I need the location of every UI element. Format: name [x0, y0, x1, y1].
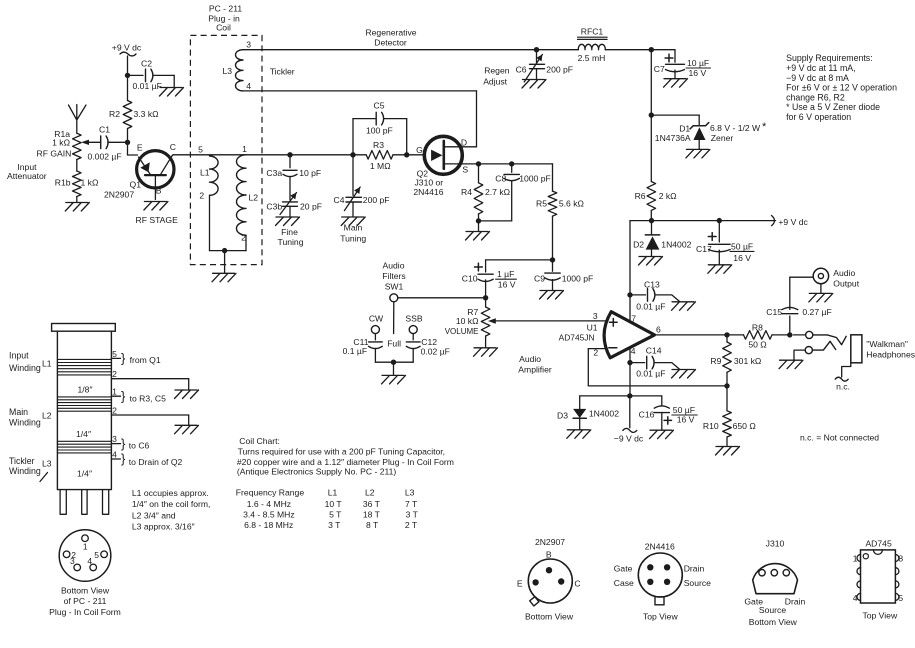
svg-text:Tuning: Tuning	[278, 237, 304, 247]
svg-text:Source: Source	[759, 605, 786, 615]
wire op-amp pin4 supply	[629, 348, 631, 396]
node junction -9V stub	[614, 393, 644, 443]
svg-text:}: }	[121, 351, 126, 366]
ground (R10)	[716, 447, 740, 456]
ground (C9)	[540, 291, 564, 300]
svg-text:AD745JN: AD745JN	[559, 333, 595, 343]
svg-text:50 µF: 50 µF	[673, 405, 695, 415]
node junction R3/C5/gate	[404, 152, 409, 157]
svg-text:Coil: Coil	[216, 23, 231, 33]
node junction +9V/C2/R2	[125, 73, 130, 78]
capacitor C13 0.01uF	[630, 280, 679, 312]
svg-text:1000 pF: 1000 pF	[519, 174, 551, 184]
svg-text:B: B	[156, 186, 162, 196]
connector audio output jack	[813, 268, 860, 293]
svg-text:L2 3/4″ and: L2 3/4″ and	[132, 510, 176, 520]
winding L1 band on form	[57, 359, 111, 375]
ground (headphone ring)	[779, 360, 803, 369]
node form pin 5 (from Q1)	[111, 349, 160, 366]
node Coil Chart text	[237, 436, 454, 477]
svg-text:5.6 kΩ: 5.6 kΩ	[559, 199, 585, 209]
svg-text:1/4″ on the coil form,: 1/4″ on the coil form,	[132, 499, 211, 509]
svg-text:20 pF: 20 pF	[300, 202, 322, 212]
svg-text:S: S	[462, 165, 468, 175]
svg-text:AD745: AD745	[865, 539, 891, 549]
node form pin 3 (to C6)	[111, 434, 149, 451]
node junction R5/C9	[550, 257, 555, 262]
svg-text:PC - 211: PC - 211	[209, 4, 242, 14]
svg-text:D1: D1	[679, 124, 690, 134]
winding L3 band on form	[57, 441, 111, 453]
svg-text:Bottom View: Bottom View	[525, 611, 574, 621]
svg-text:C: C	[170, 142, 176, 152]
svg-text:Case: Case	[614, 578, 634, 588]
svg-text:*: *	[762, 121, 767, 133]
wire L3 pin3 top line	[243, 49, 537, 51]
svg-text:0.01 µF: 0.01 µF	[133, 81, 162, 91]
svg-text:Headphones: Headphones	[866, 350, 915, 360]
svg-text:C3a: C3a	[266, 168, 282, 178]
svg-text:50 Ω: 50 Ω	[748, 339, 767, 349]
svg-text:Coil Chart:: Coil Chart:	[239, 436, 280, 446]
node form winding labels	[9, 351, 93, 479]
diode D1 1N4736A zener	[651, 115, 767, 149]
svg-text:R8: R8	[752, 322, 763, 332]
svg-text:4: 4	[631, 346, 636, 356]
svg-text:Regen: Regen	[484, 66, 510, 76]
svg-text:200 pF: 200 pF	[546, 65, 573, 75]
svg-text:10 kΩ: 10 kΩ	[456, 316, 479, 326]
svg-text:Fine: Fine	[281, 227, 298, 237]
node switch position Full	[387, 338, 401, 348]
svg-text:n.c.: n.c.	[836, 381, 850, 391]
svg-text:}: }	[121, 388, 126, 403]
svg-text:}: }	[121, 436, 126, 451]
svg-text:CW: CW	[369, 313, 384, 323]
wire main tank line	[173, 154, 407, 156]
node form pin 1 (to R3 C5)	[111, 387, 166, 404]
inductor L3 tickler winding	[222, 39, 294, 91]
capacitor C2	[128, 59, 175, 92]
svg-text:J310: J310	[766, 539, 785, 549]
svg-text:C2: C2	[141, 59, 152, 69]
svg-text:3 T: 3 T	[328, 520, 341, 530]
wire source line	[479, 163, 553, 165]
svg-text:R6: R6	[635, 191, 646, 201]
svg-text:+9 V dc: +9 V dc	[778, 217, 808, 227]
svg-text:Drain: Drain	[684, 564, 705, 574]
svg-text:Main: Main	[344, 223, 363, 233]
svg-text:C9: C9	[534, 274, 545, 284]
svg-text:}: }	[121, 451, 126, 466]
svg-text:Audio: Audio	[833, 268, 855, 278]
op-amp U1 AD745JN	[559, 311, 661, 358]
svg-text:0.27 µF: 0.27 µF	[802, 307, 831, 317]
svg-text:RF GAIN: RF GAIN	[37, 149, 72, 159]
capacitor C12 0.02uF	[406, 334, 450, 363]
ground (SW1 filters)	[382, 375, 406, 384]
svg-text:1.6 - 4 MHz: 1.6 - 4 MHz	[247, 499, 291, 509]
inductor RFC1 2.5mH	[537, 26, 652, 63]
ground (C17)	[708, 265, 732, 274]
svg-text:1 kΩ: 1 kΩ	[81, 178, 99, 188]
ground (C6)	[522, 80, 546, 89]
resistor R7 volume pot	[445, 298, 490, 347]
svg-text:4: 4	[853, 593, 858, 603]
svg-text:Winding: Winding	[9, 466, 41, 476]
resistor R10	[703, 386, 756, 446]
capacitor C16 50uF	[639, 396, 698, 430]
svg-text:18 T: 18 T	[363, 510, 381, 520]
capacitor C3a	[266, 155, 321, 178]
ground (C3b)	[276, 217, 300, 226]
svg-text:1 MΩ: 1 MΩ	[370, 161, 391, 171]
svg-text:Full: Full	[387, 338, 401, 348]
svg-text:3.4 - 8.5 MHz: 3.4 - 8.5 MHz	[243, 510, 295, 520]
ground (form pin2 L2)	[175, 425, 199, 434]
svg-text:2.5 mH: 2.5 mH	[578, 53, 606, 63]
wire C11/C12 bus	[375, 360, 413, 375]
svg-text:VOLUME: VOLUME	[445, 327, 479, 336]
svg-text:SSB: SSB	[405, 313, 422, 323]
svg-text:E: E	[137, 143, 143, 153]
svg-text:SW1: SW1	[385, 282, 404, 292]
svg-text:L1: L1	[42, 359, 52, 369]
svg-text:#20 copper wire and a 1.12″ di: #20 copper wire and a 1.12″ diameter Plu…	[237, 457, 454, 467]
svg-text:C5: C5	[374, 101, 385, 111]
svg-text:L1 occupies approx.: L1 occupies approx.	[132, 488, 209, 498]
wire op-amp pin7 supply	[630, 221, 636, 324]
ground (C16)	[650, 430, 674, 439]
connector headphone tip contact	[793, 331, 846, 344]
svg-text:3: 3	[70, 556, 75, 566]
node form pin 4 (to drain of Q2)	[111, 449, 182, 466]
svg-text:C: C	[574, 578, 580, 588]
svg-text:8: 8	[898, 553, 903, 563]
svg-text:for 6 V operation: for 6 V operation	[786, 112, 851, 122]
inductor L2	[236, 144, 258, 251]
wire +9V rail	[630, 216, 808, 227]
transistor 2N4416 pinout top view	[614, 542, 711, 622]
node junction R9/R10/feedback	[724, 383, 729, 388]
svg-text:10 T: 10 T	[325, 499, 343, 509]
svg-text:C7: C7	[654, 64, 665, 74]
node junction C10/R7/SW1	[483, 295, 488, 300]
transistor Q2 JFET J310/2N4416	[413, 136, 478, 197]
node +9V dc supply (top left)	[112, 43, 142, 57]
node junction main wire/C3a	[287, 152, 292, 157]
svg-text:Frequency Range: Frequency Range	[236, 488, 305, 498]
resistor R4	[461, 164, 511, 221]
capacitor C14 0.01uF	[630, 345, 679, 378]
svg-text:to Drain of Q2: to Drain of Q2	[129, 457, 183, 467]
svg-text:1 kΩ: 1 kΩ	[52, 138, 70, 148]
svg-text:L2: L2	[365, 488, 375, 498]
svg-text:Tickler: Tickler	[270, 67, 295, 77]
svg-text:3.3 kΩ: 3.3 kΩ	[134, 109, 160, 119]
node Supply Requirements text	[786, 53, 897, 122]
resistor R9	[710, 335, 762, 386]
wire R7 wiper to op-amp pin 3	[488, 318, 606, 323]
wire R5 to C10 line	[486, 259, 553, 261]
svg-text:1: 1	[853, 553, 858, 563]
transistor J310 pinout bottom view	[744, 539, 805, 628]
winding L2 band on form	[57, 397, 111, 411]
svg-text:L2: L2	[249, 193, 259, 203]
svg-text:0.01 µF: 0.01 µF	[636, 302, 665, 312]
svg-text:1000 pF: 1000 pF	[562, 274, 594, 284]
ground (C7)	[664, 79, 688, 88]
capacitor C1	[88, 125, 128, 162]
svg-text:Amplifier: Amplifier	[518, 364, 552, 374]
op-amp AD745 pinout top view	[853, 539, 904, 621]
svg-text:L3: L3	[222, 66, 232, 76]
svg-text:of PC - 211: of PC - 211	[64, 596, 107, 606]
capacitor C15 0.27uF	[766, 277, 831, 335]
capacitor C17 50uF	[696, 221, 754, 265]
svg-text:Q1: Q1	[130, 180, 142, 190]
svg-text:Detector: Detector	[374, 38, 407, 48]
ground (C13)	[672, 302, 696, 311]
resistor R5	[536, 164, 585, 260]
node junction R8/C15/jack	[787, 332, 792, 337]
wire -9V line	[580, 395, 662, 397]
svg-text:R4: R4	[461, 187, 472, 197]
svg-text:3: 3	[246, 39, 251, 49]
ground (R1b)	[65, 203, 89, 212]
node junction rail/D2	[649, 218, 654, 223]
svg-text:3: 3	[593, 311, 598, 321]
capacitor C9 1000pF	[534, 260, 593, 290]
svg-text:C12: C12	[421, 337, 437, 347]
svg-text:50 µF: 50 µF	[731, 241, 753, 251]
svg-text:4: 4	[112, 449, 117, 459]
svg-text:2N2907: 2N2907	[535, 537, 565, 547]
svg-text:16 V: 16 V	[677, 415, 695, 425]
wire form pin 2 L2 to ground	[111, 405, 188, 425]
svg-text:C3b: C3b	[266, 202, 282, 212]
resistor R1a (RF GAIN pot)	[37, 129, 82, 160]
svg-text:C1: C1	[99, 125, 110, 135]
svg-text:Gate: Gate	[614, 564, 633, 574]
node switch contact SSB	[405, 313, 422, 333]
svg-text:Zener: Zener	[711, 133, 734, 143]
node coil chart table	[236, 488, 419, 531]
svg-text:1/4″: 1/4″	[76, 429, 91, 439]
svg-text:L3: L3	[42, 458, 52, 468]
switch SW1 pole	[382, 261, 485, 334]
svg-text:Plug - In Coil Form: Plug - In Coil Form	[49, 607, 121, 617]
svg-text:Output: Output	[833, 278, 859, 288]
svg-text:2 kΩ: 2 kΩ	[659, 191, 677, 201]
coil form body	[52, 324, 116, 490]
svg-text:For ±6 V or ± 12 V operation: For ±6 V or ± 12 V operation	[786, 83, 897, 93]
svg-text:1/8″: 1/8″	[78, 385, 93, 395]
svg-text:+9 V dc at 11 mA,: +9 V dc at 11 mA,	[786, 63, 856, 73]
svg-text:4: 4	[87, 556, 92, 566]
svg-text:10 pF: 10 pF	[299, 168, 321, 178]
node bottom view caption	[49, 586, 121, 618]
wire wiper to C1 with arrow	[81, 140, 101, 145]
node n.c. legend	[800, 433, 879, 443]
transistor Q1 2N2907	[104, 142, 178, 225]
svg-text:2N2907: 2N2907	[104, 190, 134, 200]
svg-text:R2: R2	[109, 109, 120, 119]
svg-text:7 T: 7 T	[405, 499, 418, 509]
svg-text:n.c. = Not connected: n.c. = Not connected	[800, 433, 879, 443]
node Regenerative Detector label	[365, 28, 416, 48]
svg-text:Attenuator: Attenuator	[7, 171, 47, 181]
ground (C14)	[672, 370, 696, 379]
svg-text:650 Ω: 650 Ω	[733, 421, 757, 431]
ground (D1)	[686, 149, 710, 158]
node junction source/R4	[476, 161, 481, 166]
wire op-amp output	[655, 334, 744, 336]
svg-text:8 T: 8 T	[366, 520, 379, 530]
ground (Q1 base)	[144, 202, 168, 211]
ground (C2)	[160, 88, 184, 97]
ground (R4/C8)	[466, 232, 490, 241]
diode D3 1N4002	[557, 396, 619, 429]
node Audio Amplifier label	[518, 354, 552, 374]
svg-text:+9 V dc: +9 V dc	[112, 43, 142, 53]
svg-text:Filters: Filters	[382, 271, 405, 281]
node junction C13 tap	[627, 292, 632, 297]
node form L3 tick mark	[40, 473, 48, 482]
svg-text:D3: D3	[557, 410, 568, 420]
node junction R4/C8 bottom	[476, 218, 481, 231]
node junction D1 tap	[649, 112, 654, 117]
svg-text:from Q1: from Q1	[130, 355, 161, 365]
svg-text:D2: D2	[633, 239, 644, 249]
resistor R3	[366, 140, 393, 171]
ground (audio output jack)	[809, 293, 833, 302]
svg-text:* Use a 5 V Zener diode: * Use a 5 V Zener diode	[786, 102, 880, 112]
svg-text:Main: Main	[9, 407, 28, 417]
svg-text:3: 3	[112, 434, 117, 444]
svg-text:2N4416: 2N4416	[413, 187, 443, 197]
svg-text:5 T: 5 T	[329, 510, 342, 520]
resistor R1b	[55, 160, 99, 203]
node switch contact CW	[369, 313, 384, 333]
svg-text:Regenerative: Regenerative	[365, 28, 416, 38]
ground (D2)	[639, 257, 663, 266]
svg-text:C17: C17	[696, 244, 712, 254]
node junction RFC1/C7/R6	[649, 47, 654, 52]
coil form legs	[60, 490, 109, 515]
capacitor C4 variable (Main Tuning)	[334, 155, 390, 244]
svg-text:Source: Source	[684, 578, 711, 588]
wire R6 branch vertical	[650, 50, 652, 115]
svg-text:Bottom View: Bottom View	[749, 617, 798, 627]
svg-text:D: D	[461, 138, 467, 148]
connector PC-211 bottom view	[59, 530, 111, 582]
node junction source/C8	[509, 161, 514, 166]
capacitor C7 10uF	[651, 50, 710, 78]
ground (R7)	[474, 348, 498, 357]
svg-text:E: E	[517, 578, 523, 588]
wire coil common bus	[210, 248, 247, 273]
svg-text:1N4002: 1N4002	[661, 239, 691, 249]
svg-text:5: 5	[94, 550, 99, 560]
inductor L1	[198, 144, 218, 250]
PC-211 plug-in coil dashed box	[190, 4, 262, 265]
svg-text:1N4002: 1N4002	[589, 409, 619, 419]
svg-text:2.7 kΩ: 2.7 kΩ	[485, 187, 511, 197]
svg-text:16 V: 16 V	[498, 279, 516, 289]
svg-text:R1b: R1b	[55, 178, 71, 188]
svg-text:36 T: 36 T	[363, 499, 381, 509]
svg-text:C16: C16	[639, 409, 655, 419]
svg-text:RFC1: RFC1	[581, 26, 604, 36]
svg-text:L1: L1	[200, 168, 210, 178]
ground (form pin2 L1)	[175, 390, 199, 399]
connector headphone ring contact	[794, 341, 836, 359]
wire op-amp pin2 feedback	[588, 349, 727, 386]
svg-text:0.01 µF: 0.01 µF	[636, 369, 665, 379]
svg-text:to R3, C5: to R3, C5	[130, 394, 167, 404]
svg-text:2N4416: 2N4416	[645, 542, 675, 552]
ground (D3)	[567, 430, 591, 439]
svg-text:Tuning: Tuning	[340, 234, 366, 244]
resistor R6	[635, 115, 678, 221]
svg-text:L3: L3	[405, 488, 415, 498]
svg-text:200 pF: 200 pF	[363, 195, 390, 205]
svg-text:−9 V dc: −9 V dc	[614, 433, 644, 443]
svg-text:L3 approx. 3/16″: L3 approx. 3/16″	[132, 521, 195, 531]
capacitor C10 1uF	[462, 260, 517, 298]
svg-text:U1: U1	[587, 323, 598, 333]
svg-text:C6: C6	[516, 65, 527, 75]
resistor R2	[109, 75, 159, 142]
wire +9V feed down	[127, 56, 129, 75]
resistor R8	[744, 322, 790, 349]
wire gate lead	[407, 145, 425, 155]
capacitor C11 0.1uF	[343, 334, 383, 363]
node junction main wire/C4/C5	[350, 152, 355, 157]
svg-text:(Antique Electronics Supply No: (Antique Electronics Supply No. PC - 211…	[237, 467, 397, 477]
connector headphone plug body	[851, 335, 915, 363]
wire n.c. sleeve stub	[835, 363, 851, 392]
svg-text:0.02 µF: 0.02 µF	[421, 347, 450, 357]
svg-text:1 µF: 1 µF	[497, 269, 514, 279]
capacitor C6 variable (Regen Adjust)	[483, 50, 573, 87]
node junction C1/R2/Q1 emitter	[125, 140, 130, 145]
svg-text:G: G	[416, 145, 423, 155]
svg-text:1: 1	[242, 144, 247, 154]
svg-text:Bottom View: Bottom View	[61, 586, 110, 596]
antenna	[69, 105, 87, 134]
svg-text:6: 6	[656, 324, 661, 334]
svg-text:R10: R10	[703, 421, 719, 431]
svg-text:2: 2	[241, 233, 246, 243]
svg-text:3 T: 3 T	[406, 510, 419, 520]
ground (coil common)	[212, 273, 236, 282]
node junction C14 tap	[627, 360, 632, 365]
svg-text:C15: C15	[766, 307, 782, 317]
svg-text:1: 1	[83, 542, 88, 552]
node Input Attenuator label	[7, 162, 47, 181]
svg-text:C14: C14	[646, 345, 662, 355]
svg-text:R5: R5	[536, 199, 547, 209]
svg-text:C8: C8	[495, 174, 506, 184]
svg-text:Drain: Drain	[785, 597, 806, 607]
diode D2 1N4002	[633, 221, 692, 256]
svg-text:L1: L1	[328, 488, 338, 498]
svg-text:R3: R3	[373, 140, 384, 150]
svg-text:0.002 µF: 0.002 µF	[88, 151, 122, 161]
svg-text:C4: C4	[334, 195, 345, 205]
